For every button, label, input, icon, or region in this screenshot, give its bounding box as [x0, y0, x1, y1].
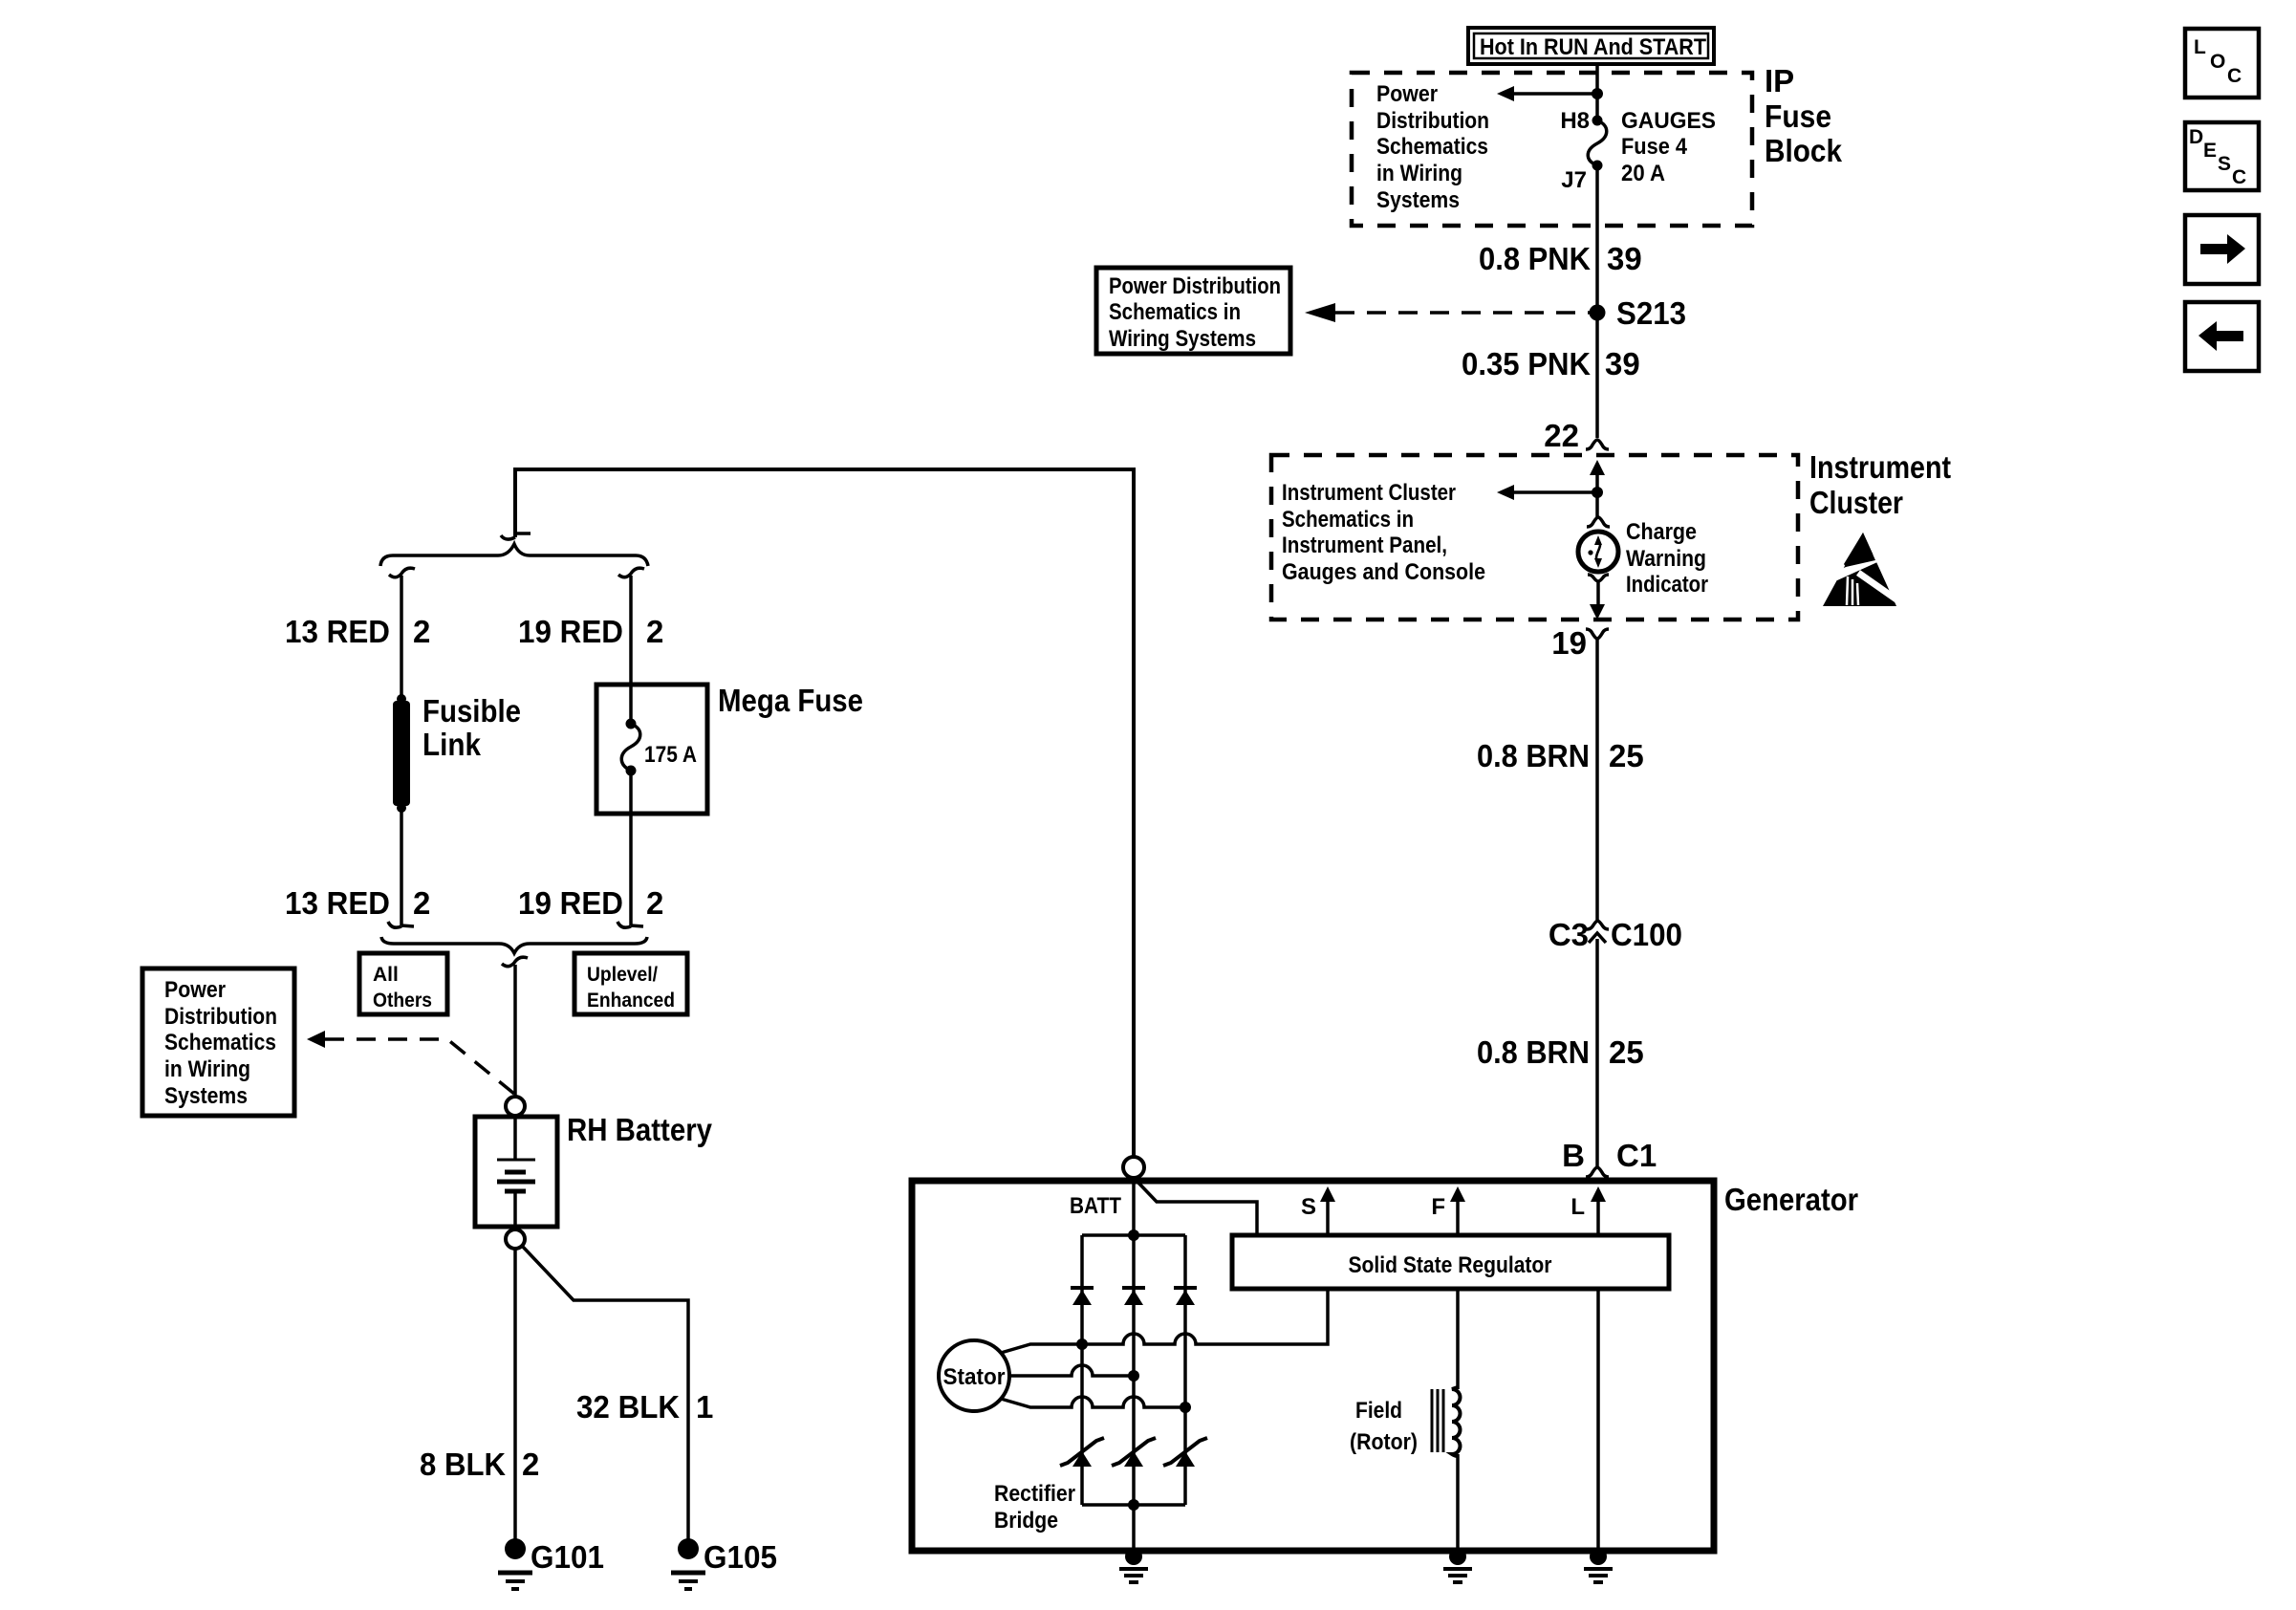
svg-text:2: 2: [646, 885, 663, 921]
junction on bottom bus: [1128, 1499, 1139, 1511]
left branch wire upper: [400, 576, 403, 699]
lamp top connector (female half): [1587, 517, 1610, 527]
svg-text:Schematics in: Schematics in: [1109, 299, 1241, 325]
upper diode 1: [1071, 1288, 1094, 1305]
Fusible Link label: [422, 693, 521, 762]
in-line connector C3 / C100: [1549, 917, 1682, 1166]
fuse value labels: [1621, 108, 1716, 186]
svg-text:IP: IP: [1765, 63, 1794, 98]
svg-text:Schematics: Schematics: [1376, 134, 1488, 160]
svg-text:RH Battery: RH Battery: [567, 1112, 713, 1147]
wire label 32 BLK 1: [576, 1389, 713, 1425]
svg-text:Power: Power: [164, 977, 226, 1003]
Solid State Regulator box: [1232, 1235, 1669, 1289]
svg-text:F: F: [1431, 1194, 1445, 1220]
connector B / C1 (female half): [1562, 1138, 1657, 1177]
svg-text:Mega Fuse: Mega Fuse: [718, 683, 863, 718]
svg-text:39: 39: [1607, 241, 1642, 276]
L wire to ground: [1596, 1289, 1600, 1551]
lower avalanche diode 2: [1112, 1438, 1156, 1467]
junction on bus: [1128, 1229, 1139, 1241]
svg-text:Fusible: Fusible: [422, 693, 521, 729]
svg-text:0.35 PNK: 0.35 PNK: [1462, 346, 1591, 381]
svg-text:Enhanced: Enhanced: [587, 990, 675, 1012]
junction phase 2 / column 2: [1128, 1370, 1139, 1382]
svg-text:2: 2: [413, 885, 430, 921]
svg-text:S: S: [1301, 1194, 1316, 1220]
svg-text:Charge: Charge: [1626, 519, 1697, 545]
upper diode 2: [1122, 1288, 1145, 1305]
Stator: [939, 1340, 1009, 1411]
svg-text:175 A: 175 A: [644, 742, 697, 768]
svg-text:C: C: [2232, 166, 2246, 188]
IP Fuse Block dashed box: [1352, 73, 1752, 226]
svg-text:(Rotor): (Rotor): [1350, 1429, 1418, 1455]
svg-text:Stator: Stator: [943, 1364, 1006, 1390]
ground G105: [671, 1538, 777, 1589]
wire label 19 RED 2 (upper): [518, 614, 663, 649]
dashed arrow from S213 to box: [1305, 303, 1591, 322]
svg-text:Cluster: Cluster: [1809, 485, 1903, 520]
svg-text:G101: G101: [531, 1539, 604, 1575]
svg-text:All: All: [373, 964, 399, 986]
svg-text:Rectifier: Rectifier: [994, 1481, 1075, 1507]
battery top terminal circle: [506, 1097, 525, 1116]
svg-text:Hot In RUN And START: Hot In RUN And START: [1480, 34, 1706, 60]
rectifier column 2: [1132, 1235, 1136, 1505]
svg-text:S213: S213: [1616, 295, 1686, 331]
svg-text:32 BLK: 32 BLK: [576, 1389, 680, 1425]
Field (Rotor) label: [1350, 1398, 1418, 1455]
svg-text:Wiring Systems: Wiring Systems: [1109, 326, 1256, 352]
svg-text:0.8 BRN: 0.8 BRN: [1477, 1034, 1590, 1070]
IP Fuse Block label: [1765, 63, 1843, 168]
lower avalanche diode 3: [1163, 1438, 1207, 1467]
BATT terminal circle: [1123, 1157, 1144, 1178]
rectifier bottom bus: [1082, 1503, 1185, 1507]
svg-text:O: O: [2210, 51, 2225, 73]
battery cell symbol: [497, 1119, 535, 1225]
Power Distribution Schematics in Wiring Systems text (in fuse block): [1376, 81, 1489, 213]
svg-text:Bridge: Bridge: [994, 1508, 1058, 1534]
svg-text:19: 19: [1551, 625, 1587, 661]
Uplevel/Enhanced box: [574, 953, 687, 1014]
wire battery to G101: [513, 1249, 517, 1541]
right branch wire lower: [629, 771, 633, 925]
Hot In RUN And START box: [1468, 28, 1714, 64]
svg-text:2: 2: [413, 614, 430, 649]
svg-text:Distribution: Distribution: [164, 1004, 277, 1030]
svg-text:Indicator: Indicator: [1626, 572, 1708, 598]
exit arrow at cluster bottom: [1590, 604, 1605, 620]
wire label 0.35 PNK 39: [1462, 346, 1640, 381]
entry arrow (male half) into cluster: [1590, 460, 1605, 492]
male connector hook at stub end: [501, 533, 531, 539]
female hook left branch top: [389, 568, 415, 577]
connector 22 (female half): [1544, 418, 1609, 453]
splice options overbrace: [380, 544, 648, 566]
svg-text:C3: C3: [1549, 917, 1589, 952]
L pin arrow: [1570, 1186, 1606, 1235]
rectifier column 3: [1183, 1235, 1187, 1505]
connector 19 (female half below box): [1551, 625, 1609, 920]
ground (rectifier): [1119, 1548, 1148, 1582]
stator phase 1 wire to S: [1001, 1289, 1328, 1353]
svg-text:Fuse 4: Fuse 4: [1621, 134, 1688, 160]
fusible link element: [393, 694, 410, 813]
wire J7 to S213 to 22: [1595, 165, 1599, 438]
svg-text:BATT: BATT: [1070, 1193, 1121, 1219]
stator phase 3 wire: [1001, 1397, 1185, 1407]
upper diode 3: [1174, 1288, 1197, 1305]
svg-text:Warning: Warning: [1626, 546, 1706, 572]
svg-text:Generator: Generator: [1724, 1182, 1858, 1217]
next arrow box: [2185, 215, 2259, 284]
stator phase 2 wire: [1009, 1365, 1134, 1376]
wire BATT down to rectifier bus: [1132, 1178, 1136, 1235]
svg-text:Power: Power: [1376, 81, 1438, 107]
svg-text:Systems: Systems: [164, 1083, 248, 1109]
wire top horizontal to generator BATT: [515, 469, 1134, 1157]
right branch wire upper: [629, 576, 633, 724]
fuse GAUGES Fuse 4 20 A: [1588, 116, 1607, 171]
svg-text:19 RED: 19 RED: [518, 614, 623, 649]
ground (L): [1584, 1548, 1613, 1582]
svg-text:Schematics in: Schematics in: [1282, 507, 1414, 533]
S pin arrow: [1301, 1186, 1335, 1235]
back arrow box: [2185, 302, 2259, 371]
wire bus to ground: [1132, 1505, 1136, 1551]
svg-text:Link: Link: [422, 727, 482, 762]
lower avalanche diode 1: [1060, 1438, 1104, 1467]
svg-text:19 RED: 19 RED: [518, 885, 623, 921]
svg-text:2: 2: [522, 1447, 539, 1482]
svg-text:in Wiring: in Wiring: [1376, 161, 1462, 186]
svg-text:Fuse: Fuse: [1765, 98, 1831, 134]
Instrument Cluster Schematics text: [1282, 480, 1485, 585]
wire to indicator: [1595, 492, 1599, 518]
wire label 19 RED 2 (lower): [518, 885, 663, 921]
svg-text:Distribution: Distribution: [1376, 108, 1489, 134]
lamp bottom connector (male half): [1588, 575, 1609, 605]
All Others box: [359, 953, 447, 1014]
mega fuse element 175 A: [621, 685, 697, 776]
Generator box: [912, 1181, 1714, 1551]
svg-text:GAUGES: GAUGES: [1621, 108, 1716, 134]
wire from Hot box into fuse block: [1595, 64, 1599, 120]
Power Distribution Schematics in Wiring Systems box (at S213): [1096, 268, 1290, 354]
LOC box: [2185, 29, 2259, 98]
junction in cluster: [1592, 487, 1603, 498]
svg-text:8 BLK: 8 BLK: [420, 1447, 506, 1482]
svg-text:B: B: [1562, 1138, 1585, 1173]
svg-text:Systems: Systems: [1376, 187, 1460, 213]
arrow to Power Distribution Schematics (left): [1497, 86, 1597, 101]
svg-text:25: 25: [1609, 1034, 1644, 1070]
junction phase 1 / column 1: [1076, 1338, 1088, 1350]
svg-text:2: 2: [646, 614, 663, 649]
female hook right branch top: [618, 568, 644, 577]
svg-text:C1: C1: [1616, 1138, 1657, 1173]
wire label 8 BLK 2: [420, 1447, 539, 1482]
svg-text:39: 39: [1605, 346, 1640, 381]
rectifier column 1: [1080, 1235, 1084, 1505]
svg-text:Instrument Panel,: Instrument Panel,: [1282, 533, 1447, 558]
wire to battery: [513, 965, 517, 1097]
male hook right branch bottom: [617, 922, 643, 927]
svg-text:25: 25: [1609, 738, 1644, 773]
Charge Warning Indicator lamp: [1578, 532, 1618, 572]
Instrument Cluster dashed box: [1271, 455, 1798, 620]
svg-text:22: 22: [1544, 418, 1579, 453]
ground G101: [498, 1538, 604, 1589]
svg-text:L: L: [1570, 1194, 1585, 1220]
svg-text:C100: C100: [1611, 917, 1682, 952]
svg-text:0.8 BRN: 0.8 BRN: [1477, 738, 1590, 773]
svg-text:C: C: [2227, 65, 2242, 87]
female hook battery wire top: [502, 957, 528, 967]
svg-text:in Wiring: in Wiring: [164, 1056, 250, 1082]
svg-text:13 RED: 13 RED: [285, 614, 390, 649]
svg-text:0.8 PNK: 0.8 PNK: [1479, 241, 1591, 276]
svg-text:H8: H8: [1560, 108, 1590, 134]
svg-text:L: L: [2194, 36, 2206, 58]
svg-text:Block: Block: [1765, 133, 1843, 168]
wire label 0.8 BRN 25 (lower): [1477, 1034, 1644, 1070]
junction node on wire in fuse block: [1592, 88, 1603, 99]
svg-text:S: S: [2218, 153, 2231, 175]
F pin arrow: [1431, 1186, 1465, 1235]
svg-text:E: E: [2203, 140, 2217, 162]
RH Battery box: [475, 1117, 557, 1227]
svg-text:Solid State Regulator: Solid State Regulator: [1349, 1252, 1552, 1278]
svg-text:Schematics: Schematics: [164, 1030, 276, 1055]
svg-text:Field: Field: [1355, 1398, 1402, 1424]
left branch wire lower: [400, 808, 403, 925]
svg-text:1: 1: [696, 1389, 713, 1425]
battery bottom terminal circle: [506, 1229, 525, 1249]
svg-text:Uplevel/: Uplevel/: [587, 964, 658, 986]
svg-text:Power Distribution: Power Distribution: [1109, 273, 1281, 299]
svg-text:Instrument Cluster: Instrument Cluster: [1282, 480, 1456, 506]
wire label 13 RED 2 (upper): [285, 614, 430, 649]
ESD symbol: [1823, 533, 1906, 606]
svg-text:Others: Others: [373, 990, 432, 1012]
F wire to field coil: [1456, 1289, 1460, 1389]
svg-text:13 RED: 13 RED: [285, 885, 390, 921]
junction phase 3 / column 3: [1180, 1402, 1191, 1413]
arrow to Instrument Cluster Schematics (left): [1497, 485, 1597, 500]
svg-text:D: D: [2189, 126, 2203, 148]
rectifier top bus: [1082, 1233, 1185, 1237]
wire battery to G105: [522, 1246, 688, 1541]
Rectifier Bridge label: [994, 1481, 1075, 1534]
svg-text:20 A: 20 A: [1621, 161, 1665, 186]
F wire to ground: [1456, 1454, 1460, 1551]
svg-text:J7: J7: [1561, 167, 1587, 193]
dashed arrow battery to box: [307, 1031, 525, 1102]
Charge Warning Indicator label: [1626, 519, 1708, 598]
splice options underbrace: [381, 937, 647, 953]
Mega Fuse box: [596, 685, 707, 814]
wire BATT to regulator: [1136, 1180, 1257, 1235]
splice S213: [1590, 305, 1606, 321]
ground (field): [1443, 1548, 1472, 1582]
Power Distribution Schematics box (battery): [142, 968, 294, 1116]
field coil (rotor): [1432, 1387, 1461, 1456]
svg-text:Gauges and Console: Gauges and Console: [1282, 559, 1485, 585]
svg-text:G105: G105: [704, 1539, 777, 1575]
wire label 0.8 BRN 25 (upper): [1477, 738, 1644, 773]
wire label 13 RED 2 (lower): [285, 885, 430, 921]
svg-text:Instrument: Instrument: [1809, 449, 1951, 485]
DESC box: [2185, 122, 2259, 190]
male hook left branch bottom: [388, 922, 414, 927]
wire label 0.8 PNK 39: [1479, 241, 1642, 276]
Instrument Cluster label: [1809, 449, 1951, 520]
